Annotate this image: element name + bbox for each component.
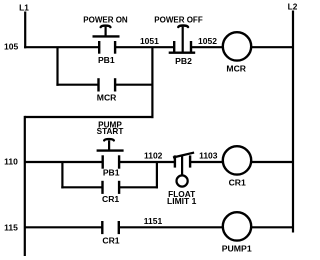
svg-text:L1: L1 [19,3,29,13]
L2 rail [292,11,294,233]
pushbutton PB1 POWER ON (NO) [93,26,120,54]
wire node 1102 vertical drop [156,162,158,188]
wire CR1 seal-in right horizontal [119,186,158,188]
svg-text:1052: 1052 [198,36,217,46]
svg-text:PB1: PB1 [98,55,115,65]
wire rung 105 segment MCR coil to L2 [251,46,293,48]
svg-text:CR1: CR1 [229,178,246,188]
svg-text:PB2: PB2 [175,56,192,66]
svg-text:MCR: MCR [97,92,117,102]
wire rung 110 segment CR1 coil to L2 [251,161,293,163]
svg-text:POWER OFF: POWER OFF [154,16,203,25]
svg-text:POWER ON: POWER ON [83,15,128,24]
wire CR1 seal-in left vertical [61,162,63,188]
svg-text:105: 105 [4,42,18,52]
svg-text:110: 110 [4,157,18,167]
svg-text:1051: 1051 [140,36,159,46]
contact CR1 (rung 115) [102,221,119,234]
wire rung 115 segment rail to CR1 [25,226,103,228]
coil CR1 [223,146,251,174]
coil MCR [223,32,251,60]
wire rung 115 segment PUMP1 coil to L2 [251,226,293,228]
svg-text:PB1: PB1 [103,167,120,177]
svg-text:L2: L2 [288,1,298,11]
wire CR1 seal-in left horizontal [61,186,102,188]
wire seal-in branch right horizontal [115,84,152,86]
svg-text:115: 115 [4,222,18,232]
wire rung 110 segment float switch to CR1 coil [190,161,223,163]
float switch FLOAT LIMIT 1 [173,153,194,187]
svg-text:MCR: MCR [226,64,246,74]
wire rung 105 segment L1 to PB1 [24,46,99,48]
wire rung 105 segment PB2 to MCR coil [191,46,223,48]
svg-text:1102: 1102 [144,150,163,160]
wire rung 115 segment CR1 to PUMP1 coil [119,226,223,228]
wire node 1051 vertical drop [151,47,153,118]
svg-text:1151: 1151 [144,216,163,226]
svg-text:CR1: CR1 [102,194,119,204]
wire seal-in branch left vertical [56,47,58,86]
contact MCR (seal-in) [99,78,116,91]
pushbutton PB2 POWER OFF (NC) [169,26,196,53]
L1 rail [24,12,26,49]
wire rung 110 segment rail to PB1 [25,161,103,163]
pushbutton PB1 PUMP START (NO) [97,139,124,169]
svg-text:1103: 1103 [199,150,218,160]
contact CR1 (seal-in) [103,181,120,194]
wire sub rail vertical [24,116,26,256]
svg-text:PUMP1: PUMP1 [222,243,252,253]
wire seal-in branch left horizontal [56,84,98,86]
svg-text:LIMIT 1: LIMIT 1 [167,196,197,206]
wire rung 110 segment PB1 to float switch [119,161,175,163]
coil PUMP1 [223,212,251,240]
svg-text:CR1: CR1 [102,235,119,245]
wire rung 105 segment PB1 to PB2 [115,46,174,48]
wire sub-feed horizontal [25,116,154,118]
svg-text:START: START [97,127,124,136]
